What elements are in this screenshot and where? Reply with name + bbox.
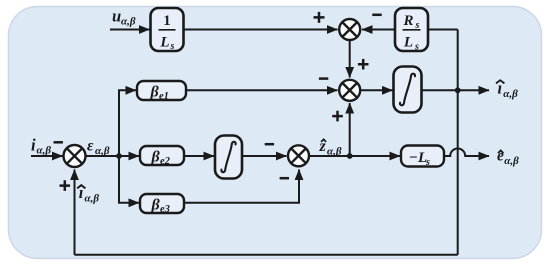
wire beta_e3 output up into S3 bottom xyxy=(184,170,299,203)
node dot on epsilon line xyxy=(116,153,122,159)
wire 1/Ls output to summing junction S1 xyxy=(183,29,338,31)
node dot on i-hat line xyxy=(455,87,461,93)
svg-text:s: s xyxy=(170,41,175,52)
wire epsilon line to beta_e2 xyxy=(87,155,140,157)
wire beta_e2 output to integrator U2 xyxy=(184,155,214,157)
svg-text:i: i xyxy=(31,135,36,154)
sign minus at S1 right xyxy=(372,14,381,17)
svg-text:s: s xyxy=(425,157,430,168)
svg-text:α,β: α,β xyxy=(503,88,518,100)
svg-text:α,β: α,β xyxy=(504,155,519,167)
summing junction S1 xyxy=(339,19,360,40)
svg-text:α,β: α,β xyxy=(95,145,110,157)
svg-text:z: z xyxy=(319,138,327,155)
wire i input xyxy=(31,155,63,157)
block -Ls xyxy=(401,146,444,169)
block Rs/Ls xyxy=(395,8,428,53)
svg-text:α,β: α,β xyxy=(121,16,136,28)
node dot on z-hat line xyxy=(347,153,353,159)
wire right feedback vertical xyxy=(457,30,459,255)
svg-text:ı: ı xyxy=(79,183,84,202)
wire left feedback vertical into SL bottom xyxy=(74,170,76,255)
wire beta_e1 output to S2 xyxy=(186,89,338,91)
svg-text:β: β xyxy=(151,149,161,166)
sign plus at S2 bottom xyxy=(332,111,343,122)
wire bottom feedback xyxy=(75,254,458,256)
svg-text:β: β xyxy=(151,197,161,214)
wire z-hat node up into S2 bottom xyxy=(349,103,351,156)
svg-text:ε: ε xyxy=(87,138,94,155)
sign minus at SL left xyxy=(54,141,63,144)
wire Rs/Ls output into S1 (leftward) xyxy=(362,29,395,31)
block integrator U2 xyxy=(215,136,242,179)
svg-text:L: L xyxy=(403,35,413,51)
block beta_e2 xyxy=(140,146,184,167)
svg-text:L: L xyxy=(159,35,169,51)
svg-text:ı: ı xyxy=(498,79,503,98)
svg-text:e: e xyxy=(497,147,504,164)
svg-text:β: β xyxy=(150,84,160,101)
svg-text:α,β: α,β xyxy=(37,145,52,157)
svg-text:α,β: α,β xyxy=(85,193,100,205)
svg-text:−: − xyxy=(409,150,418,166)
sign plus at S1 left xyxy=(314,12,325,23)
wire Rs/Ls right side to feedback column xyxy=(428,29,458,31)
sign minus at S2 left xyxy=(319,77,328,80)
wire branch down to beta_e3 xyxy=(119,156,139,203)
wire u input xyxy=(110,29,150,31)
block integrator U1 xyxy=(394,67,422,113)
wire z-hat output to -Ls block xyxy=(309,155,400,157)
wire integrator U1 output to i-hat xyxy=(422,89,489,91)
label i-hat_ab output xyxy=(496,79,518,101)
svg-text:s: s xyxy=(414,42,419,53)
summing junction S3 (z-hat junction) xyxy=(288,145,309,166)
summing junction S2 xyxy=(339,80,360,101)
wire S1 to S2 vertical xyxy=(349,40,351,78)
summing junction SL (error junction) xyxy=(64,145,86,167)
svg-text:α,β: α,β xyxy=(327,145,342,157)
sign plus at SL bottom xyxy=(60,180,71,191)
block 1/Ls xyxy=(151,8,184,52)
svg-text:e1: e1 xyxy=(159,91,169,102)
label i-hat_ab feedback xyxy=(77,183,99,205)
wire S2 output to integrator U1 xyxy=(360,89,392,91)
wire integrator U2 output to summing junction S3 xyxy=(242,155,287,157)
svg-text:e3: e3 xyxy=(160,204,170,215)
wire branch up to beta_e1 xyxy=(119,90,136,156)
svg-text:R: R xyxy=(402,13,413,29)
label z-hat_ab xyxy=(319,138,342,157)
block beta_e1 xyxy=(137,81,186,102)
svg-text:1: 1 xyxy=(163,13,171,29)
svg-text:u: u xyxy=(112,7,121,26)
sign plus at S2 top xyxy=(358,59,369,70)
sign minus at S3 bottom xyxy=(280,177,289,180)
sign minus at S3 left xyxy=(265,143,274,146)
wire -Ls output with hop to e-hat xyxy=(444,149,489,156)
block beta_e3 xyxy=(140,194,184,215)
label e-hat_ab output xyxy=(497,147,519,167)
svg-text:e2: e2 xyxy=(160,156,171,167)
